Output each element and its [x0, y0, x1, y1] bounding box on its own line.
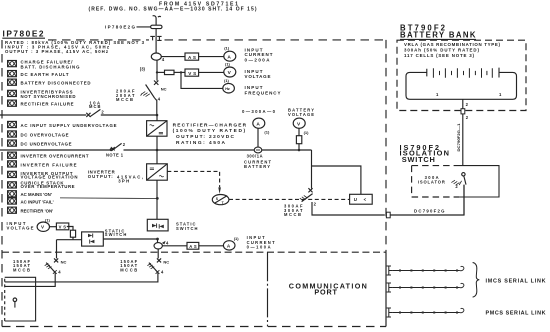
- svg-text:RECTIFIER 'ON': RECTIFIER 'ON': [21, 208, 54, 213]
- node: alarm rectifier failure: [8, 100, 74, 107]
- svg-text:AS: AS: [188, 55, 196, 60]
- svg-text:<: <: [364, 197, 367, 202]
- svg-text:BATTERY: BATTERY: [244, 164, 270, 169]
- wire: node down to output MCCB2: [157, 249, 159, 258]
- wire: fuse F2 to DC bus: [298, 144, 300, 150]
- wire: bypass line to static switch S4: [57, 239, 82, 241]
- node: alarm dc overvoltage: [8, 131, 69, 138]
- breaker Q5 bottom contact cross: [156, 270, 160, 274]
- svg-text:(1): (1): [264, 130, 270, 135]
- wire: CT1 to ammeter selector: [161, 56, 185, 58]
- wire: down to changeover node circle: [157, 239, 159, 243]
- wire: bypass tap bus to left edge: [0, 114, 157, 116]
- breaker Q1 input MCCB contact cross: [154, 81, 158, 85]
- node: alarm inverter failure: [8, 161, 77, 168]
- svg-text:DC790F2G: DC790F2G: [414, 208, 445, 213]
- node: alarm charge failure / battery discharging: [8, 60, 81, 70]
- wire: node to output ammeter selector: [162, 245, 187, 247]
- svg-text:MCB: MCB: [89, 104, 101, 109]
- svg-text:MCCB: MCCB: [116, 97, 133, 102]
- node: junction inverter output node: [156, 197, 159, 200]
- node: alarm ac input supply undervoltage: [8, 121, 117, 128]
- svg-text:(100% DUTY RATED): (100% DUTY RATED): [173, 128, 246, 134]
- svg-text:MCCB: MCCB: [284, 212, 301, 217]
- wire: internal partition dashed line: [2, 251, 386, 253]
- switch S2 DC bus link NOTE 1: [110, 142, 126, 150]
- wire: PMCS serial link line: [393, 308, 464, 313]
- wire: battery bank title underline: [400, 38, 476, 40]
- node: output changeover node circle: [154, 243, 162, 249]
- meter Hz1 input frequency meter: [223, 83, 235, 93]
- svg-text:0—300A—0: 0—300A—0: [242, 109, 276, 114]
- svg-text:ISOLATOR: ISOLATOR: [418, 179, 445, 184]
- wire: MCCB to AC input node: [155, 98, 157, 115]
- svg-text:(1): (1): [224, 78, 230, 83]
- meter A1 input current ammeter: [224, 51, 236, 61]
- svg-text:AS: AS: [189, 244, 197, 249]
- node: alarm ac mains on: [8, 191, 52, 197]
- svg-text:SWITCH: SWITCH: [402, 155, 435, 164]
- svg-text:117 CELLS (SEE NOTE 3): 117 CELLS (SEE NOTE 3): [404, 53, 475, 58]
- meter A3 output current ammeter: [223, 241, 235, 250]
- svg-text:NOTE 1: NOTE 1: [106, 153, 124, 158]
- node: earth stud symbol inside output box: [13, 298, 17, 308]
- svg-text:AC MAINS 'ON': AC MAINS 'ON': [21, 192, 52, 197]
- svg-text:300/1A: 300/1A: [247, 154, 263, 159]
- wire: frequency meter branch: [181, 72, 223, 88]
- svg-text:(1): (1): [225, 62, 231, 67]
- switch S3 inverter-side static switch: [147, 219, 168, 231]
- meter V3 bypass voltmeter: [37, 222, 49, 231]
- wire: battery cable DC790F2G-1 down to isolation switch: [462, 114, 464, 166]
- svg-text:A: A: [256, 121, 260, 127]
- wire: AC node down to rectifier: [156, 115, 158, 121]
- svg-text:DC OVERVOLTAGE: DC OVERVOLTAGE: [21, 132, 69, 137]
- svg-text:BATT. DISCHARGING: BATT. DISCHARGING: [21, 64, 81, 69]
- svg-text:RECTIFIER—CHARGER: RECTIFIER—CHARGER: [173, 122, 247, 128]
- breaker Q5 operator barbs: [147, 263, 154, 268]
- svg-text:NOT SYNCHRONISED: NOT SYNCHRONISED: [21, 94, 76, 99]
- node: alarm cubicle stack over temperature: [8, 181, 75, 190]
- node: alarm dc earth fault: [8, 71, 69, 77]
- wire: isolator output down to DC790F2G line: [463, 185, 465, 215]
- wire: DC bus left section to sheet edge: [0, 149, 110, 151]
- node: alarm inverter overcurrent: [8, 152, 89, 159]
- wire: DC790F2G cable to isolation switch: [390, 185, 464, 215]
- node: serial link boundary terminal: [387, 283, 393, 292]
- wire: IMCS serial link line 1: [393, 266, 464, 271]
- node: voltmeter selector switch VS: [185, 69, 199, 76]
- wire: tap to fuse F1: [157, 71, 165, 73]
- svg-text:VOLTAGE: VOLTAGE: [245, 74, 271, 79]
- breaker Q3 10A MCB blade: [90, 109, 101, 116]
- breaker Q2 blade: [302, 194, 313, 202]
- battery BT790F2 cell string symbol: [406, 68, 517, 100]
- wire: voltmeter V2 to fuse F2: [298, 128, 300, 135]
- wire: V3 to VS selector: [50, 226, 57, 228]
- current transformer CT1 on AC input: [151, 53, 161, 60]
- svg-text:AC INPUT SUPPLY UNDERVOLTAGE: AC INPUT SUPPLY UNDERVOLTAGE: [21, 123, 117, 128]
- svg-text:VS: VS: [188, 71, 196, 76]
- svg-text:(1): (1): [234, 236, 240, 241]
- wire: battery MCCB down to boundary: [312, 202, 385, 215]
- wire: IMCS serial link line 2: [393, 283, 464, 288]
- svg-text:(1): (1): [224, 45, 230, 50]
- node: changeover sensor circle S/T: [212, 195, 229, 206]
- svg-text:SWITCH: SWITCH: [176, 226, 198, 231]
- node: serial link boundary terminal: [387, 308, 393, 317]
- svg-text:OUTPUT:: OUTPUT:: [88, 174, 114, 179]
- wire: fuse F1 to VS: [174, 71, 185, 73]
- wire: UPS dashed boundary top edge: [48, 39, 386, 41]
- wire: bypass feed down to output MCCB1: [56, 240, 58, 259]
- breaker Q1 blade: [146, 85, 155, 99]
- wire: trunk CT1 down to input MCCB: [156, 60, 158, 80]
- breaker Q4 blade: [46, 263, 55, 273]
- svg-text:NC: NC: [61, 259, 67, 264]
- svg-text:VOLTAGE DEVIATION: VOLTAGE DEVIATION: [21, 174, 78, 179]
- svg-text:INVERTER OVERCURRENT: INVERTER OVERCURRENT: [21, 154, 89, 159]
- breaker Q5 output MCCB2 contact cross: [157, 258, 161, 262]
- relay K1 dc undervoltage relay U&lt;: [350, 194, 373, 204]
- wire: incoming feeder continuation hook: [153, 16, 161, 24]
- wire: AS to ammeter A1: [199, 56, 224, 58]
- node: boundary terminal posts at feeder entry: [150, 36, 161, 40]
- wire: CT2 to battery ammeter: [257, 128, 259, 147]
- node: IMCS grouping brace: [473, 263, 480, 298]
- wire: boundary solid underline under IP780E2: [2, 37, 45, 39]
- svg-text:AC INPUT 'FAIL': AC INPUT 'FAIL': [21, 200, 54, 205]
- node: conductor count 4 with arrow: [162, 240, 169, 245]
- svg-text:(1): (1): [45, 218, 51, 223]
- node: control arrowhead: [218, 187, 221, 194]
- breaker Q2 battery MCCB contact cross: [308, 188, 312, 192]
- wire: undervoltage relay branch: [312, 166, 361, 194]
- node: alarm rectifier on: [8, 207, 54, 213]
- wire: DC bus corner down to battery breaker: [311, 150, 313, 189]
- svg-text:A: A: [227, 54, 231, 60]
- svg-text:BATTERY DISCONNECTED: BATTERY DISCONNECTED: [21, 81, 91, 86]
- node: junction frequency branch: [180, 71, 182, 73]
- svg-text:0—200A: 0—200A: [245, 58, 271, 63]
- wire: UPS dashed boundary left edge: [1, 40, 3, 327]
- svg-text:NC: NC: [163, 259, 169, 264]
- node: junction rectifier on DC bus: [156, 149, 159, 152]
- svg-text:300Ah (50% DUTY RATED): 300Ah (50% DUTY RATED): [404, 47, 480, 52]
- wire: feeder drop into UPS: [137, 24, 157, 53]
- converter U2 inverter: [147, 164, 168, 180]
- svg-text:VRLA (GAS RECOMBINATION TYPE): VRLA (GAS RECOMBINATION TYPE): [404, 42, 501, 47]
- svg-text:DC UNDERVOLTAGE: DC UNDERVOLTAGE: [21, 142, 72, 147]
- node: isolation switch enclosure box: [412, 166, 499, 197]
- svg-text:FREQUENCY: FREQUENCY: [245, 90, 281, 95]
- wire: leader from AC MAINS ON alarm to node: [60, 197, 157, 200]
- svg-text:RECTIFIER FAILURE: RECTIFIER FAILURE: [21, 102, 74, 107]
- svg-text:BATTERY BANK: BATTERY BANK: [400, 30, 476, 39]
- svg-text:DC790F2G—1: DC790F2G—1: [457, 124, 461, 152]
- fuse F2 battery voltmeter fuse: [296, 136, 301, 144]
- breaker Q1 operator barbs: [141, 92, 150, 97]
- svg-text:CURRENT: CURRENT: [245, 52, 273, 57]
- meter V2 battery voltmeter: [293, 118, 305, 128]
- node: junction battery voltmeter branch: [298, 149, 301, 152]
- node: output terminal box: [5, 277, 36, 321]
- wire: AS to output ammeter A3: [199, 245, 224, 247]
- wire: MCCB2 down and left into output box: [5, 273, 158, 282]
- node: alarm inverter/bypass not synchronised: [8, 89, 76, 99]
- svg-text:PMCS SERIAL LINK: PMCS SERIAL LINK: [486, 310, 546, 316]
- node: junction AC input node: [156, 114, 159, 117]
- switch S4 bypass static switch: [82, 232, 104, 246]
- svg-text:SWITCH: SWITCH: [105, 232, 127, 237]
- node: ammeter selector AS (output): [187, 242, 199, 249]
- svg-text:3PH: 3PH: [118, 179, 129, 184]
- node: alarm inverter output voltage deviation: [8, 171, 78, 180]
- node: alarm ac input fail: [8, 198, 54, 205]
- wire: rectifier output down through DC bus to inverter: [156, 136, 158, 164]
- node: alarm dc undervoltage: [8, 140, 72, 147]
- svg-text:MCCB: MCCB: [13, 267, 30, 272]
- svg-text:OUTPUT : 3 PHASE, 415V AC, 50H: OUTPUT : 3 PHASE, 415V AC, 50Hz: [5, 49, 109, 54]
- wire: fuse F3 down to bypass node line: [72, 237, 74, 240]
- switch S1 300A isolator: [451, 173, 466, 189]
- wire: VS to voltmeter V1: [199, 71, 224, 73]
- fuse F3 bypass fuse: [70, 230, 75, 237]
- wire: UPS dashed boundary bottom edge: [2, 326, 386, 328]
- svg-text:PORT: PORT: [314, 287, 337, 296]
- svg-text:IMCS SERIAL LINK: IMCS SERIAL LINK: [486, 278, 546, 284]
- svg-text:INPUT: INPUT: [247, 235, 265, 240]
- node: voltmeter selector VS (bypass): [56, 223, 68, 230]
- wire: DC bus right section: [262, 149, 312, 151]
- meter A2 battery charge/discharge ammeter: [253, 118, 265, 128]
- wire: DC bus centre section: [124, 149, 255, 151]
- svg-text:Hz: Hz: [225, 87, 230, 91]
- svg-text:(1): (1): [304, 130, 310, 135]
- fuse F1 voltmeter branch fuse: [165, 70, 175, 74]
- svg-text:(3): (3): [140, 67, 146, 72]
- wire: bypass static switch output to node: [103, 238, 157, 240]
- node: battery bank enclosure dashed box: [397, 40, 526, 110]
- node: battery boundary terminal: [461, 109, 465, 114]
- breaker Q4 bottom contact cross: [53, 270, 57, 274]
- breaker Q3 10A MCB contact cross: [86, 113, 90, 117]
- wire: MCCB1 down and left into output box: [5, 273, 56, 287]
- breaker Q4 output MCCB1 contact cross: [54, 258, 58, 262]
- wire: VS to fuse F3: [67, 227, 73, 231]
- node: cable pothead termination: [151, 25, 162, 28]
- node: serial link boundary terminal: [387, 266, 393, 275]
- wire: UPS boundary right edge solid along communication port: [385, 252, 387, 326]
- wire: dashed control line sensor to undervoltage relay: [229, 198, 350, 200]
- node: junction of static switch outputs: [156, 238, 159, 241]
- svg-text:INVERTER FAILURE: INVERTER FAILURE: [21, 163, 77, 168]
- node: alarm battery disconnected: [8, 79, 91, 86]
- converter U1 rectifier-charger: [147, 121, 167, 137]
- node: communication port dash-dot partition: [267, 252, 269, 326]
- svg-text:U: U: [354, 197, 357, 202]
- svg-text:IP780E2G: IP780E2G: [105, 25, 135, 30]
- svg-text:INPUT: INPUT: [245, 85, 263, 90]
- wire: battery centre tap down: [462, 99, 464, 110]
- node: boundary terminal on DC790F2G cable: [386, 212, 390, 218]
- breaker Q5 blade: [149, 263, 158, 273]
- svg-text:VOLTAGE: VOLTAGE: [288, 112, 314, 117]
- svg-text:415VAC,: 415VAC,: [117, 174, 143, 179]
- wire: UPS dashed boundary right edge: [385, 40, 387, 252]
- wire: dashed control line inverter to changeover sensor: [167, 171, 219, 187]
- svg-text:RATING: 450A: RATING: 450A: [176, 140, 226, 146]
- wire: inverter output down to static switch: [156, 180, 158, 219]
- svg-text:(REF. DWG. NO. SWG—AA—E—1030 S: (REF. DWG. NO. SWG—AA—E—1030 SHT. 14 OF …: [89, 7, 257, 13]
- svg-text:NC: NC: [161, 87, 167, 92]
- node: ammeter selector switch AS: [185, 53, 199, 60]
- node: junction voltmeter tap: [156, 71, 158, 73]
- svg-text:OVER TEMPERATURE: OVER TEMPERATURE: [21, 184, 75, 189]
- svg-text:DC EARTH FAULT: DC EARTH FAULT: [21, 72, 69, 77]
- breaker Q2 operator barbs: [300, 195, 308, 200]
- svg-text:VS: VS: [59, 225, 67, 230]
- meter V1 input voltage voltmeter: [224, 67, 236, 77]
- breaker Q4 operator barbs: [45, 263, 52, 268]
- current transformer CT2 battery current: [254, 147, 262, 153]
